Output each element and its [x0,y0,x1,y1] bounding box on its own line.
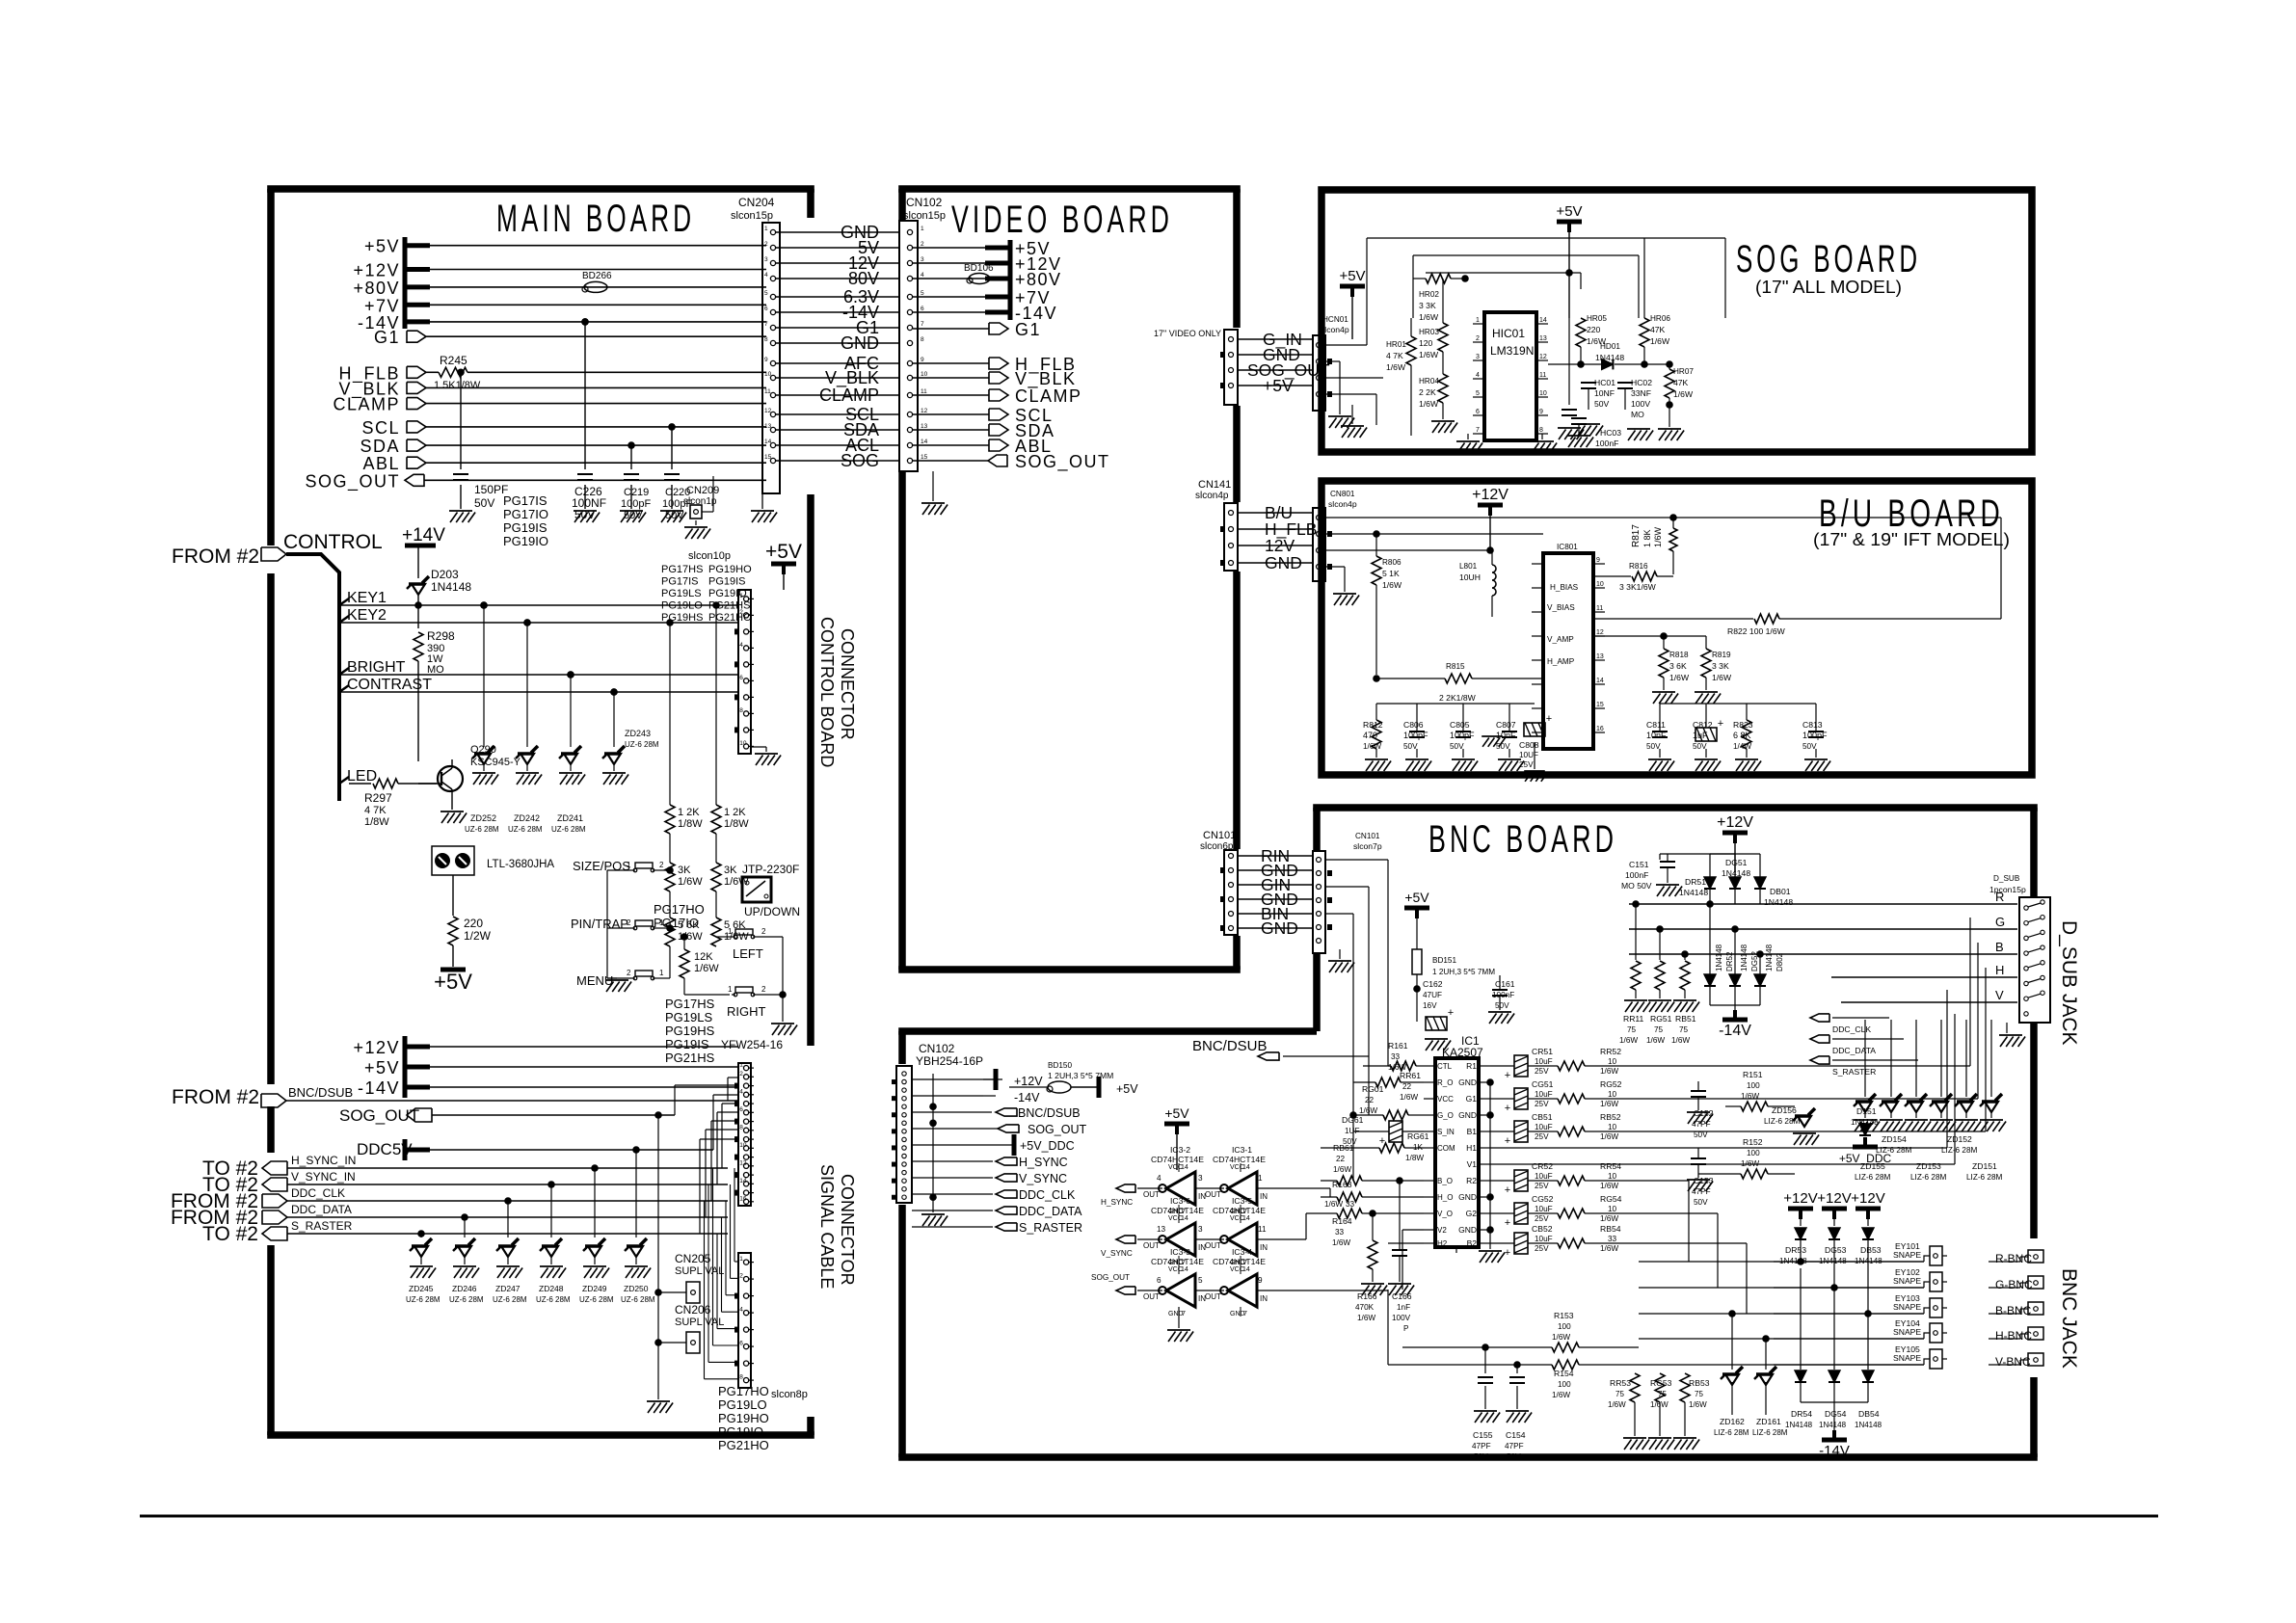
svg-text:V-BNC: V-BNC [1995,1355,2031,1369]
svg-text:1/6W: 1/6W [1600,1214,1618,1223]
svg-text:1 2UH,3 5*5 7MM: 1 2UH,3 5*5 7MM [1432,968,1495,976]
svg-text:DDC_DATA: DDC_DATA [1019,1205,1082,1218]
svg-text:CN205: CN205 [675,1252,711,1265]
svg-text:DDC_CLK: DDC_CLK [291,1186,345,1200]
svg-text:C154: C154 [1506,1430,1526,1440]
svg-text:2: 2 [739,1273,743,1280]
svg-text:V_SYNC_IN: V_SYNC_IN [291,1170,356,1184]
svg-text:7: 7 [1476,427,1480,434]
svg-text:R154: R154 [1554,1369,1574,1378]
svg-text:ZD162: ZD162 [1720,1417,1745,1426]
svg-text:ZD249: ZD249 [582,1284,607,1293]
svg-text:HIC01: HIC01 [1492,327,1525,340]
svg-text:14: 14 [764,439,772,445]
svg-text:10uF: 10uF [1535,1057,1553,1066]
svg-text:6: 6 [739,675,743,681]
svg-text:+12V: +12V [353,261,400,280]
svg-text:50V: 50V [1646,742,1661,751]
svg-text:RG51: RG51 [1650,1014,1672,1024]
svg-text:SNAPE: SNAPE [1893,1353,1921,1363]
svg-text:1/6W: 1/6W [1619,1036,1638,1045]
svg-text:50V: 50V [665,510,684,521]
svg-text:50V: 50V [574,508,595,521]
svg-text:GND: GND [1458,1078,1477,1087]
svg-text:CR52: CR52 [1532,1161,1553,1171]
svg-text:100V: 100V [1631,399,1650,409]
svg-text:25V: 25V [1535,1244,1549,1253]
svg-text:+80V: +80V [1015,270,1062,289]
svg-text:GND: GND [1458,1192,1477,1202]
svg-text:10: 10 [1596,581,1604,588]
svg-text:10: 10 [1608,1090,1617,1099]
svg-text:MO: MO [427,664,444,676]
svg-text:C806: C806 [1403,720,1424,730]
svg-text:C151: C151 [1629,860,1649,869]
svg-text:UZ-6 28M: UZ-6 28M [449,1295,484,1304]
svg-text:6 8K: 6 8K [1733,731,1751,740]
svg-text:(17" ALL MODEL): (17" ALL MODEL) [1755,278,1902,297]
svg-text:BD151: BD151 [1432,956,1456,965]
svg-text:R164: R164 [1332,1216,1352,1226]
svg-text:2: 2 [659,861,664,869]
svg-text:11: 11 [1258,1225,1267,1234]
svg-text:10: 10 [739,1142,747,1149]
svg-text:3K: 3K [724,865,737,876]
svg-text:OUT: OUT [1143,1190,1160,1199]
svg-text:R151: R151 [1743,1070,1763,1079]
svg-text:RG01: RG01 [1362,1084,1384,1094]
svg-text:DB53: DB53 [1860,1245,1882,1255]
svg-text:12: 12 [921,408,928,414]
svg-text:PG17HS: PG17HS [665,997,715,1011]
svg-text:PG21HS: PG21HS [665,1051,715,1065]
svg-text:VCC: VCC [1437,1095,1454,1104]
svg-text:RB53: RB53 [1689,1378,1710,1388]
svg-text:H_SYNC: H_SYNC [1101,1198,1133,1207]
svg-text:1/6W: 1/6W [1600,1182,1618,1190]
svg-text:22: 22 [1336,1155,1346,1163]
svg-text:1 5K1/8W: 1 5K1/8W [434,380,481,391]
svg-text:1/6W: 1/6W [1382,580,1402,590]
svg-text:LIZ-6 28M: LIZ-6 28M [1752,1428,1788,1437]
svg-text:DB54: DB54 [1858,1409,1880,1419]
svg-text:+12V: +12V [1472,487,1508,503]
svg-text:OUT: OUT [1205,1292,1221,1301]
svg-text:CONNECTOR: CONNECTOR [838,1174,857,1286]
svg-text:PG17HO: PG17HO [718,1384,769,1398]
svg-text:7: 7 [921,321,924,328]
svg-text:H2: H2 [1437,1239,1448,1248]
svg-text:H1: H1 [1466,1143,1477,1153]
svg-text:13: 13 [921,423,928,430]
svg-text:V: V [1995,988,2004,1002]
svg-text:CN801: CN801 [1330,490,1355,498]
svg-text:RB54: RB54 [1600,1224,1621,1234]
svg-text:MO 50V: MO 50V [1621,881,1652,891]
svg-text:R-BNC: R-BNC [1995,1252,2032,1265]
svg-text:+12V: +12V [1817,1190,1851,1207]
svg-text:50V: 50V [1594,399,1610,409]
svg-text:G2: G2 [1466,1209,1478,1218]
svg-text:BRIGHT: BRIGHT [347,659,406,676]
svg-text:V_O: V_O [1437,1210,1453,1218]
svg-text:D802: D802 [1775,952,1784,971]
svg-text:HC03: HC03 [1600,428,1621,438]
svg-text:LEFT: LEFT [733,946,763,961]
svg-text:100nF: 100nF [1625,870,1648,880]
svg-text:12: 12 [764,408,772,414]
svg-text:1/6W: 1/6W [1400,1093,1418,1102]
svg-text:10: 10 [921,371,928,378]
svg-text:R816: R816 [1629,562,1648,571]
svg-text:RR11: RR11 [1623,1014,1644,1024]
svg-text:ZD154: ZD154 [1882,1134,1907,1144]
svg-text:220: 220 [464,917,483,930]
svg-text:50V: 50V [1496,742,1510,751]
svg-text:3: 3 [1476,354,1480,360]
svg-text:C807: C807 [1496,720,1516,730]
svg-text:120: 120 [1419,338,1433,348]
svg-text:7: 7 [764,321,768,328]
svg-text:2 2K: 2 2K [1419,387,1436,397]
svg-text:UZ-6 28M: UZ-6 28M [493,1295,527,1304]
svg-text:1: 1 [739,593,743,599]
svg-text:GND: GND [841,333,879,353]
svg-text:CN102: CN102 [919,1042,955,1055]
svg-text:SNAPE: SNAPE [1893,1302,1921,1312]
svg-text:R297: R297 [364,791,392,805]
svg-text:IC3-3: IC3-3 [1170,1247,1190,1257]
svg-text:100: 100 [1747,1081,1760,1090]
svg-text:1 8K: 1 8K [1642,529,1652,547]
svg-text:100: 100 [1747,1149,1760,1157]
svg-text:H_AMP: H_AMP [1547,657,1575,666]
svg-text:FROM #2: FROM #2 [172,545,259,568]
svg-text:16: 16 [739,1195,747,1202]
svg-text:1N4148: 1N4148 [1819,1421,1847,1429]
svg-text:1N4148: 1N4148 [1764,897,1793,907]
svg-text:SOG: SOG [841,451,879,470]
svg-text:+12V: +12V [1717,814,1753,831]
svg-text:75: 75 [1679,1025,1689,1034]
svg-text:+5V: +5V [434,970,472,994]
svg-text:100pF: 100pF [1802,731,1828,740]
svg-text:+5V: +5V [1164,1105,1189,1121]
svg-text:PG19LO: PG19LO [661,600,703,612]
svg-text:CD74HCT14E: CD74HCT14E [1151,1206,1204,1215]
svg-text:8: 8 [764,336,768,343]
svg-text:5: 5 [1476,390,1480,397]
svg-text:ZD243: ZD243 [625,729,651,738]
svg-text:RB52: RB52 [1600,1112,1621,1122]
svg-text:slcon4p: slcon4p [1328,499,1357,509]
svg-text:V2: V2 [1437,1226,1447,1235]
svg-text:ZD250: ZD250 [624,1284,649,1293]
svg-text:+12V: +12V [1014,1075,1043,1088]
svg-text:1/6W: 1/6W [1671,1036,1690,1045]
svg-text:CLAMP: CLAMP [333,395,400,414]
svg-text:ZD248: ZD248 [539,1284,564,1293]
svg-text:1N4148: 1N4148 [431,580,471,594]
svg-text:PG21HO: PG21HO [718,1438,769,1452]
svg-text:1 2K: 1 2K [678,807,700,818]
svg-text:1/6W: 1/6W [1669,673,1690,682]
svg-text:PG17HO: PG17HO [654,902,705,917]
svg-text:+5V_DDC: +5V_DDC [1020,1139,1075,1153]
svg-text:1/6W: 1/6W [1552,1391,1570,1399]
svg-text:1/6W: 1/6W [1419,350,1439,359]
svg-text:-14V: -14V [1819,1443,1850,1459]
svg-text:7: 7 [1243,1311,1247,1317]
svg-text:BNC JACK: BNC JACK [2058,1268,2080,1369]
svg-text:1N4148: 1N4148 [1765,944,1774,971]
svg-text:6: 6 [739,1106,743,1113]
svg-text:10uF: 10uF [1535,1172,1553,1181]
svg-text:R812: R812 [1363,720,1383,730]
svg-text:2: 2 [761,985,766,994]
svg-text:BNC/DSUB: BNC/DSUB [1192,1038,1268,1054]
svg-text:-14V: -14V [1719,1023,1751,1039]
svg-text:DG61: DG61 [1342,1115,1364,1125]
svg-text:8: 8 [739,1374,743,1381]
svg-text:slcon4p: slcon4p [1321,325,1349,334]
svg-text:UZ-6 28M: UZ-6 28M [536,1295,571,1304]
svg-text:1/6W: 1/6W [694,963,719,974]
svg-text:14: 14 [1181,1164,1188,1171]
svg-text:C155: C155 [1473,1430,1493,1440]
svg-text:100pF: 100pF [1403,731,1428,740]
svg-text:R152: R152 [1743,1137,1763,1147]
svg-text:VIDEO BOARD: VIDEO BOARD [951,199,1173,241]
svg-text:8: 8 [739,1124,743,1131]
svg-text:RG61: RG61 [1407,1131,1429,1141]
svg-text:GND: GND [1458,1225,1477,1235]
svg-text:+5V: +5V [1404,890,1429,905]
svg-text:G1: G1 [1015,320,1041,339]
svg-text:DDC_DATA: DDC_DATA [1832,1046,1876,1055]
svg-text:47PF: 47PF [1505,1442,1524,1450]
svg-text:ZD242: ZD242 [514,813,540,823]
svg-text:3: 3 [921,256,924,263]
svg-text:RR53: RR53 [1610,1378,1631,1388]
svg-text:G1: G1 [1466,1094,1478,1104]
svg-text:1/6W: 1/6W [1608,1400,1626,1409]
svg-text:14: 14 [1181,1215,1188,1222]
svg-text:14: 14 [1242,1164,1250,1171]
svg-text:50V: 50V [1802,742,1817,751]
svg-text:L801: L801 [1459,562,1478,571]
svg-text:14: 14 [921,439,928,445]
svg-text:slcon15p: slcon15p [731,210,773,222]
svg-text:B/U BOARD: B/U BOARD [1819,492,2004,535]
svg-text:1/6W: 1/6W [1600,1132,1618,1141]
svg-text:1/8W: 1/8W [678,818,703,830]
svg-text:IC3-2: IC3-2 [1170,1145,1190,1155]
svg-text:B-BNC: B-BNC [1995,1304,2032,1317]
svg-text:100pF: 100pF [621,498,651,510]
svg-text:1/6W: 1/6W [1363,742,1381,751]
svg-text:10: 10 [1608,1057,1617,1066]
svg-text:IC3-5: IC3-5 [1232,1196,1252,1206]
svg-text:50V: 50V [1403,742,1418,751]
svg-text:HR07: HR07 [1673,367,1694,376]
svg-text:BNC BOARD: BNC BOARD [1428,818,1617,861]
svg-text:(17" & 19" IFT MODEL): (17" & 19" IFT MODEL) [1813,530,2010,549]
svg-text:2: 2 [1476,335,1480,342]
svg-text:UP/DOWN: UP/DOWN [744,905,800,918]
svg-text:SOG BOARD: SOG BOARD [1736,238,1921,280]
svg-text:1/8W: 1/8W [1405,1154,1424,1162]
svg-text:PG17IO: PG17IO [503,507,548,521]
svg-text:R822 100 1/6W: R822 100 1/6W [1727,626,1786,636]
svg-text:slcon4p: slcon4p [1195,491,1229,501]
svg-text:PG19IS: PG19IS [708,576,746,588]
svg-text:HR05: HR05 [1587,314,1607,323]
svg-text:RIGHT: RIGHT [727,1004,766,1019]
svg-text:PG19IS: PG19IS [665,1037,709,1051]
svg-text:5: 5 [1198,1276,1203,1285]
svg-text:-14V: -14V [358,1078,400,1098]
svg-text:8: 8 [921,336,924,343]
svg-text:ZD151: ZD151 [1972,1161,1997,1171]
svg-text:SOG_OUT: SOG_OUT [305,471,400,492]
svg-text:11: 11 [1539,372,1546,379]
svg-text:UZ-6 28M: UZ-6 28M [625,740,659,749]
svg-text:RG53: RG53 [1650,1378,1672,1388]
svg-text:SOG_OUT: SOG_OUT [1015,452,1110,472]
svg-text:+: + [1505,1247,1510,1259]
svg-text:1/6W: 1/6W [1552,1333,1570,1342]
svg-text:1/6W: 1/6W [1333,1165,1351,1174]
svg-text:D203: D203 [431,568,459,581]
svg-text:HD01: HD01 [1600,342,1620,351]
svg-text:R819: R819 [1712,651,1731,659]
svg-text:25V: 25V [1535,1182,1549,1190]
svg-text:UZ-6 28M: UZ-6 28M [551,825,586,834]
svg-text:3 3K: 3 3K [1419,301,1436,310]
svg-text:50V: 50V [1693,742,1707,751]
svg-text:10uF: 10uF [1535,1123,1553,1131]
svg-text:10: 10 [739,740,747,747]
svg-text:1/6W: 1/6W [1419,399,1439,409]
svg-text:14: 14 [1539,317,1547,324]
svg-text:IC801: IC801 [1557,543,1578,551]
svg-text:1/6W: 1/6W [1741,1092,1759,1101]
svg-text:PG19LO: PG19LO [718,1397,767,1412]
svg-text:11: 11 [921,388,927,395]
svg-text:DDC_DATA: DDC_DATA [291,1203,352,1216]
svg-text:LIZ-6 28M: LIZ-6 28M [1855,1173,1890,1182]
svg-text:33: 33 [1346,1200,1355,1209]
svg-text:15: 15 [921,454,928,461]
svg-text:IN: IN [1260,1294,1268,1303]
svg-text:10: 10 [1539,390,1547,397]
svg-text:SIGNAL CABLE: SIGNAL CABLE [817,1164,837,1289]
svg-text:R161: R161 [1388,1041,1408,1051]
svg-text:DG51: DG51 [1725,858,1748,867]
svg-text:PG21HS: PG21HS [708,600,750,612]
svg-text:DG53: DG53 [1825,1245,1847,1255]
svg-text:33: 33 [1391,1052,1401,1061]
svg-text:+: + [1546,713,1552,725]
svg-text:16: 16 [1596,726,1604,732]
svg-text:B: B [1995,940,2004,954]
svg-text:RG52: RG52 [1600,1079,1622,1089]
svg-text:13: 13 [1539,335,1547,342]
svg-text:2: 2 [921,241,924,248]
svg-text:50V: 50V [1694,1198,1708,1207]
svg-text:HCN01: HCN01 [1322,315,1348,324]
svg-text:1/6W: 1/6W [1646,1036,1665,1045]
svg-text:LM319N: LM319N [1490,344,1534,358]
svg-text:4: 4 [739,1088,743,1095]
svg-text:PG17IO: PG17IO [654,916,699,930]
svg-text:12: 12 [1539,354,1547,360]
svg-text:CN141: CN141 [1198,479,1231,491]
svg-text:9: 9 [764,357,768,363]
svg-text:1/8W: 1/8W [724,818,749,830]
svg-text:DDC_CLK: DDC_CLK [1019,1188,1076,1202]
svg-text:1/6W: 1/6W [1712,673,1732,682]
svg-text:S_RASTER: S_RASTER [1019,1221,1082,1235]
svg-text:1/8W: 1/8W [364,816,389,828]
svg-text:HR03: HR03 [1419,328,1439,336]
svg-text:14: 14 [1242,1215,1250,1222]
svg-text:1/6W: 1/6W [1600,1067,1618,1076]
svg-text:BD150: BD150 [1048,1061,1072,1070]
svg-text:CONTRAST: CONTRAST [347,677,432,693]
svg-text:10uF: 10uF [1535,1090,1553,1099]
svg-text:G1: G1 [374,328,400,347]
svg-text:10nF: 10nF [1646,731,1667,740]
svg-text:PG19IO: PG19IO [718,1424,763,1439]
svg-text:4: 4 [1476,372,1480,379]
svg-text:+: + [1718,718,1723,730]
svg-text:4: 4 [739,1307,743,1314]
svg-text:13: 13 [1596,653,1604,660]
svg-text:UZ-6 28M: UZ-6 28M [621,1295,655,1304]
svg-text:1/6W: 1/6W [1650,336,1670,346]
svg-text:BD106: BD106 [964,263,994,274]
svg-text:PG19HS: PG19HS [665,1024,715,1038]
svg-text:100: 100 [1558,1322,1571,1331]
svg-text:100nF: 100nF [1595,439,1618,448]
svg-text:V1: V1 [1467,1159,1478,1169]
svg-text:CLAMP: CLAMP [1015,386,1082,406]
svg-text:OUT: OUT [1143,1241,1160,1250]
svg-text:BNC/DSUB: BNC/DSUB [288,1085,353,1100]
svg-text:10uF: 10uF [1535,1235,1553,1243]
svg-text:RR54: RR54 [1600,1161,1621,1171]
svg-text:25V: 25V [1535,1132,1549,1141]
svg-text:R245: R245 [440,354,467,367]
svg-text:H-BNC: H-BNC [1995,1329,2032,1343]
svg-text:R1: R1 [1466,1061,1477,1071]
svg-text:UZ-6 28M: UZ-6 28M [406,1295,441,1304]
svg-text:IC3-1: IC3-1 [1232,1145,1252,1155]
svg-text:G_O: G_O [1437,1111,1454,1120]
svg-text:9: 9 [921,357,924,363]
svg-text:YBH254-16P: YBH254-16P [916,1054,983,1068]
svg-text:R: R [1995,890,2004,904]
svg-text:ZD161: ZD161 [1756,1417,1781,1426]
svg-text:50V: 50V [1474,1452,1488,1461]
svg-text:9: 9 [1258,1276,1263,1285]
svg-text:10: 10 [1608,1172,1617,1181]
svg-text:DB01: DB01 [1770,887,1791,896]
svg-text:+80V: +80V [353,279,400,298]
svg-text:SIZE/POS: SIZE/POS [573,859,630,873]
